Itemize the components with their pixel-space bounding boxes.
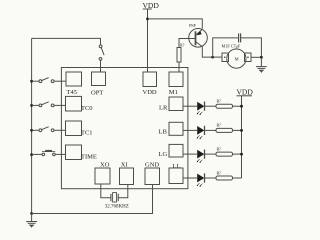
svg-text:VDD: VDD (237, 88, 254, 97)
pin box TC1 (66, 121, 93, 136)
node bus row3 (240, 153, 243, 156)
pin box TIME (66, 145, 97, 160)
resistor R2 (216, 99, 233, 109)
svg-text:LB: LB (159, 128, 168, 135)
wire LG to LED (183, 153, 197, 155)
svg-text:LL: LL (173, 163, 181, 170)
svg-text:R?: R? (217, 123, 222, 128)
transistor Q1 PNP (189, 24, 208, 47)
pin box LR (159, 97, 183, 112)
wire LED to R4 (205, 153, 217, 155)
wire capacitor branch left (213, 38, 238, 57)
IC body U1 (61, 68, 187, 189)
svg-text:GND: GND (145, 162, 159, 169)
svg-text:T45: T45 (67, 89, 77, 96)
wire OPT top rail (32, 38, 101, 45)
pin box OPT (91, 72, 106, 97)
wire resistor to M1 pin (178, 62, 180, 72)
svg-text:R?: R? (217, 99, 222, 104)
crystal Y1 (105, 193, 129, 210)
svg-text:XI: XI (121, 162, 128, 169)
svg-text:µF: µF (236, 44, 241, 49)
wire VDD stem (147, 10, 149, 73)
wire R2 to bus (233, 105, 242, 107)
node bottom-left (30, 212, 33, 215)
wire XI drop (118, 185, 128, 198)
node motor right (260, 56, 263, 59)
ground (left) (26, 214, 37, 228)
pin box LL (169, 163, 183, 183)
node VDD rail junction (146, 18, 149, 21)
resistor R3 (216, 123, 233, 133)
wire LED to R5 (205, 177, 217, 179)
capacitor C1 (222, 33, 241, 48)
resistor R1 (base) (177, 43, 185, 63)
motor M1 (222, 49, 251, 68)
wire R3 to bus (233, 129, 242, 131)
LED D1 (197, 102, 205, 116)
wire LL to LED (183, 177, 197, 179)
pin box XO (95, 162, 110, 184)
ground (right) (256, 67, 267, 73)
switch S4 (TC1) (32, 127, 66, 132)
pin box T45 (66, 72, 82, 96)
svg-text:XO: XO (100, 162, 110, 169)
svg-text:R?: R? (217, 146, 222, 151)
wire R5 to bus (233, 177, 242, 179)
wire ground bus left (31, 38, 33, 213)
wire VDD LED bus (241, 96, 243, 178)
svg-text:TC1: TC1 (81, 129, 93, 136)
wire VDD rail to emitter (148, 19, 203, 29)
pin box M1 (169, 72, 183, 96)
pushbutton S5 (TIME) (32, 151, 66, 156)
svg-text:R?: R? (217, 170, 222, 175)
wire LR to LED (183, 105, 197, 107)
node bus row2 (240, 129, 243, 132)
svg-text:LG: LG (159, 151, 168, 158)
pin box XI (120, 162, 134, 185)
LED D2 (197, 126, 205, 140)
svg-text:VDD: VDD (143, 89, 157, 96)
node bus row1 (240, 105, 243, 108)
svg-text:PNP: PNP (189, 24, 196, 28)
switch S3 (TC0) (32, 102, 66, 107)
wire LB to LED (183, 129, 197, 131)
pin box TC0 (66, 96, 93, 112)
wire base (179, 39, 196, 48)
resistor R4 (216, 146, 233, 156)
pin box GND (145, 162, 160, 185)
node motor left (211, 56, 214, 59)
wire collector (202, 47, 212, 58)
switch S1 (OPT) (99, 45, 104, 72)
wire motor left lead (213, 56, 222, 58)
pin box LB (159, 122, 184, 135)
node row T45 (30, 80, 33, 83)
wire ground stub right (260, 57, 262, 66)
switch S2 (T45) (32, 78, 66, 83)
svg-text:OPT: OPT (91, 90, 103, 97)
net label VDD top (143, 1, 160, 10)
wire capacitor branch right (241, 38, 261, 57)
svg-text:M1F C7: M1F C7 (222, 44, 236, 49)
svg-text:TIME: TIME (81, 153, 97, 160)
svg-text:TC0: TC0 (81, 105, 93, 112)
net label VDD right (237, 88, 254, 97)
svg-text:R?: R? (180, 43, 185, 48)
wire motor right lead (251, 56, 261, 58)
svg-text:M1: M1 (169, 89, 178, 96)
node row TC0 (30, 104, 33, 107)
wire bottom rail (GND) (32, 185, 153, 214)
wire R4 to bus (233, 153, 242, 155)
wire XO drop (101, 184, 111, 198)
wire LED to R3 (205, 129, 217, 131)
svg-text:M: M (235, 56, 239, 61)
pin box LG (159, 144, 184, 158)
node row TIME (30, 153, 33, 156)
resistor R5 (216, 170, 233, 180)
svg-text:LR: LR (159, 105, 168, 112)
LED D3 (197, 150, 205, 164)
pin box VDD (143, 72, 157, 96)
svg-text:32.768KHZ: 32.768KHZ (105, 204, 129, 209)
LED D4 (197, 173, 205, 187)
node row TC1 (30, 129, 33, 132)
wire LED to R2 (205, 105, 217, 107)
